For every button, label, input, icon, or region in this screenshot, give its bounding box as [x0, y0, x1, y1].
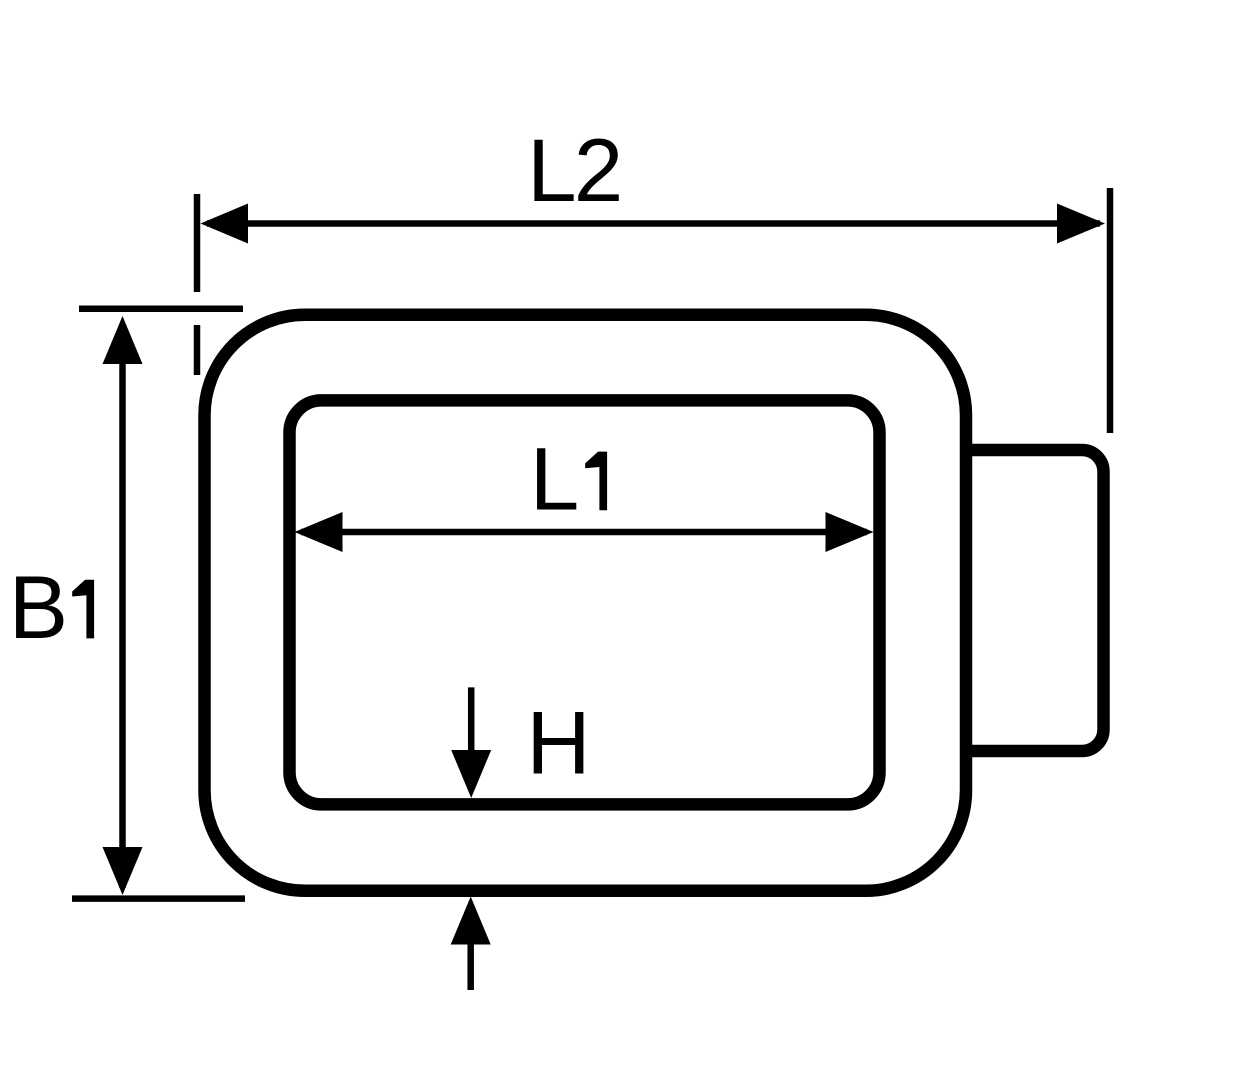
svg-text:H: H [526, 693, 590, 793]
svg-text:L: L [530, 429, 580, 529]
svg-text:B: B [9, 557, 68, 657]
svg-text:L: L [527, 120, 577, 220]
svg-text:2: 2 [574, 120, 624, 220]
